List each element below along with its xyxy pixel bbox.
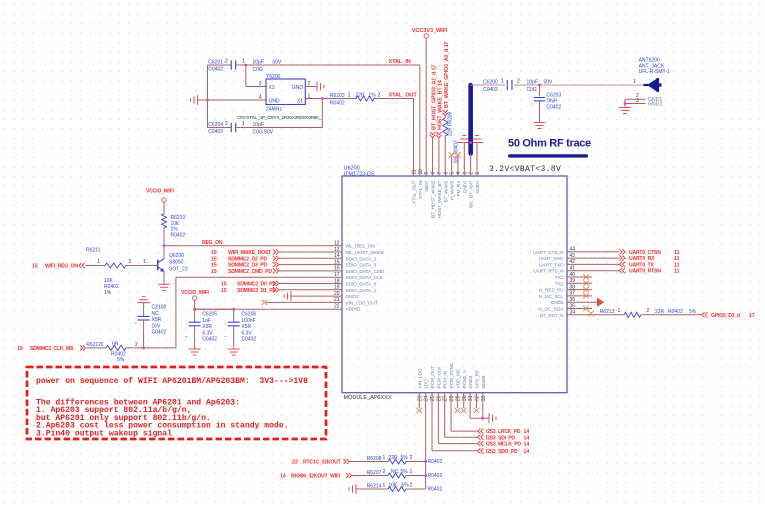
svg-text:SDMMC2_D0_PD: SDMMC2_D0_PD bbox=[237, 282, 276, 288]
svg-text:power on sequence of WIFI AP62: power on sequence of WIFI AP6201BM/AP620… bbox=[36, 377, 308, 386]
svg-text:1: 1 bbox=[383, 455, 386, 461]
svg-text:3.Pin40 output wakeup signal: 3.Pin40 output wakeup signal bbox=[36, 429, 172, 438]
svg-text:VCC3V3_WIFI: VCC3V3_WIFI bbox=[412, 28, 448, 34]
ground at pin 20 GND3 bbox=[284, 291, 342, 301]
resistor R6210 10K bbox=[162, 214, 186, 239]
pin 11 XTAL_OUT of U6200 bbox=[412, 169, 418, 204]
svg-text:XTAL_OUT: XTAL_OUT bbox=[412, 180, 418, 204]
ground left of R6214 bbox=[349, 484, 356, 494]
svg-text:UART0_CTSN: UART0_CTSN bbox=[629, 250, 661, 256]
transistor Q6200 S8050 bbox=[158, 246, 188, 285]
wire XTAL_OUT to pin 11 bbox=[413, 99, 415, 177]
net label XTAL_OUT bbox=[389, 93, 418, 99]
svg-text:SDMMC2_D2_PD: SDMMC2_D2_PD bbox=[228, 256, 267, 262]
svg-text:RK806_32KOUT_WIFI: RK806_32KOUT_WIFI bbox=[291, 474, 341, 480]
svg-text:SDIO_DATA_CMD: SDIO_DATA_CMD bbox=[346, 269, 385, 275]
no-connect X on right pin bbox=[567, 281, 592, 287]
svg-text:R0402: R0402 bbox=[428, 473, 443, 479]
ground right of crystal GND pin 2 bbox=[305, 82, 324, 92]
svg-text:HOST_WAKE_BT: HOST_WAKE_BT bbox=[437, 180, 443, 218]
svg-text:S8050: S8050 bbox=[169, 260, 184, 266]
svg-text:UART_TXD: UART_TXD bbox=[539, 262, 564, 268]
svg-text:C6204: C6204 bbox=[208, 122, 223, 128]
svg-text:7: 7 bbox=[437, 172, 443, 175]
svg-text:FM_RX: FM_RX bbox=[456, 180, 462, 197]
no-connect X at pin 35 bbox=[567, 306, 592, 312]
svg-text:WIFI_REG_ON: WIFI_REG_ON bbox=[45, 264, 78, 270]
svg-text:15: 15 bbox=[211, 250, 217, 256]
pin 16 SDIO_DATA_CMD of U6200 bbox=[334, 266, 385, 275]
svg-text:WL_HOST_WAKE: WL_HOST_WAKE bbox=[346, 250, 385, 256]
ground flipped at pin 3 GND2 bbox=[458, 136, 483, 177]
svg-text:GND3: GND3 bbox=[346, 294, 359, 300]
svg-text:1: 1 bbox=[410, 469, 413, 475]
text VBAT range note bbox=[489, 165, 561, 174]
svg-text:2: 2 bbox=[410, 455, 413, 461]
svg-text:1: 1 bbox=[348, 92, 351, 98]
svg-text:1: 1 bbox=[242, 121, 245, 127]
svg-text:2: 2 bbox=[410, 483, 413, 489]
svg-text:14: 14 bbox=[524, 435, 530, 441]
node REG_ON label bbox=[202, 240, 223, 246]
svg-text:3.2V<VBAT<3.8V: 3.2V<VBAT<3.8V bbox=[489, 165, 561, 174]
svg-text:8: 8 bbox=[431, 172, 437, 175]
svg-text:UFL-R-SMT-1: UFL-R-SMT-1 bbox=[639, 69, 670, 75]
svg-text:3: 3 bbox=[462, 172, 468, 175]
pin 5 H_WAKE of U6200 bbox=[450, 172, 456, 200]
svg-text:14: 14 bbox=[524, 449, 530, 455]
svg-text:NC: NC bbox=[391, 469, 399, 475]
wire net I2S3_SDI_PD from U6200 bottom bbox=[445, 393, 530, 442]
pin 3 GND2 of U6200 bbox=[462, 172, 468, 194]
resistor R6213 22R to GPIO0_D3_d bbox=[567, 308, 755, 319]
svg-text:XTAL_IN: XTAL_IN bbox=[418, 180, 424, 199]
svg-text:GPS_RF: GPS_RF bbox=[474, 370, 480, 389]
svg-text:I2S3_MCLK_PD: I2S3_MCLK_PD bbox=[486, 442, 521, 448]
svg-text:10K: 10K bbox=[389, 483, 399, 489]
capacitor C6200 10pF RF coupling bbox=[483, 78, 643, 93]
svg-text:32: 32 bbox=[474, 395, 480, 401]
off-page arrow at pin 36 bbox=[567, 298, 604, 307]
pin 32 GPS_RF of U6200 bbox=[474, 370, 480, 401]
pin 42 UART_TXD of U6200 bbox=[539, 259, 575, 268]
ground below C6203 bbox=[534, 123, 546, 129]
pin 12 WL_REG_ON of U6200 bbox=[334, 241, 375, 250]
wire net UART0_RX from U6200 bbox=[567, 256, 680, 263]
svg-text:11: 11 bbox=[674, 250, 680, 256]
wire net I2S3_SDO_PD from U6200 bottom bbox=[432, 393, 529, 455]
pin 4 FM_RX of U6200 bbox=[456, 172, 462, 197]
svg-text:5: 5 bbox=[450, 172, 456, 175]
svg-text:R0402: R0402 bbox=[330, 100, 345, 106]
ground below antenna bbox=[619, 108, 631, 114]
svg-text:XTAL_IN: XTAL_IN bbox=[389, 59, 411, 65]
svg-text:LPO: LPO bbox=[424, 379, 430, 389]
wire SDIO_DATA_CLK net from R6212 up to pin 17 bbox=[176, 277, 342, 348]
svg-text:1: 1 bbox=[143, 259, 146, 265]
svg-text:17: 17 bbox=[749, 313, 755, 319]
ground below C6205 bbox=[189, 349, 201, 355]
svg-text:15: 15 bbox=[221, 288, 227, 294]
no-connect X on right pin bbox=[567, 274, 592, 280]
pin 27 PCM_IN of U6200 bbox=[443, 370, 449, 401]
svg-text:PCM2_V: PCM2_V bbox=[462, 369, 468, 388]
pin 19 SDIO_DATA_1 of U6200 bbox=[334, 285, 377, 294]
pin 41 UART_RTS_N of U6200 bbox=[533, 266, 575, 275]
svg-text:BT_WAKE: BT_WAKE bbox=[443, 181, 449, 203]
net label XTAL_IN bbox=[389, 59, 411, 65]
svg-text:VCCIO_WIFI: VCCIO_WIFI bbox=[181, 290, 209, 296]
svg-text:UART_CTS_N: UART_CTS_N bbox=[533, 250, 564, 256]
svg-text:SDIO_DATA_CLK: SDIO_DATA_CLK bbox=[346, 275, 384, 281]
svg-text:1%: 1% bbox=[369, 92, 377, 98]
resistor R6208 22R bbox=[350, 455, 443, 465]
svg-text:14: 14 bbox=[280, 474, 286, 480]
power symbol VCC3V3_WIFI bbox=[412, 28, 448, 176]
svg-text:R0402: R0402 bbox=[428, 487, 443, 493]
no-connect X at pin 5 bbox=[449, 152, 455, 176]
pin 10 XTAL_IN of U6200 bbox=[418, 169, 424, 199]
svg-text:N_I2C_SDA: N_I2C_SDA bbox=[538, 307, 564, 313]
pin 22 VDDIO of U6200 bbox=[334, 304, 361, 313]
antenna jack ANT6200 symbol bbox=[633, 78, 662, 92]
svg-text:R0402: R0402 bbox=[428, 459, 443, 465]
svg-text:GND: GND bbox=[292, 85, 304, 91]
net label BT_HOST_GPIO3_A1_d on pin 8 bbox=[430, 65, 437, 176]
pin 29 VDD_MC of U6200 bbox=[455, 368, 461, 401]
svg-text:1: 1 bbox=[475, 172, 481, 175]
svg-text:BT_HOST_WAKE: BT_HOST_WAKE bbox=[431, 181, 437, 219]
pin 18 SDIO_DATA_0 of U6200 bbox=[334, 278, 377, 287]
svg-text:R6203: R6203 bbox=[330, 93, 345, 99]
svg-text:MODULE_AP6XXX: MODULE_AP6XXX bbox=[344, 395, 392, 401]
svg-text:BT_RST_N: BT_RST_N bbox=[540, 313, 564, 319]
pin 31 GND4 of U6200 bbox=[468, 375, 474, 401]
no-connect X on bottom pin bbox=[455, 393, 461, 414]
wire net UART0_RTSN from U6200 bbox=[567, 268, 680, 275]
svg-text:I2S3_LRCK_PD: I2S3_LRCK_PD bbox=[486, 429, 521, 435]
svg-text:22: 22 bbox=[334, 304, 340, 310]
svg-text:22: 22 bbox=[292, 460, 298, 466]
antenna ANT6200 labels bbox=[639, 58, 670, 76]
svg-text:15: 15 bbox=[221, 282, 227, 288]
svg-text:11: 11 bbox=[674, 262, 680, 268]
svg-text:16V: 16V bbox=[152, 323, 162, 329]
wire XTAL_IN from C6201 to pin 10 bbox=[244, 64, 419, 176]
crystal Y6200 24MHz bbox=[237, 74, 322, 121]
IC U6200 MODULE_AP6XXX body bbox=[342, 166, 567, 402]
svg-text:BT_HOST_GPIO3_A1_d 17: BT_HOST_GPIO3_A1_d 17 bbox=[431, 65, 437, 130]
power symbol VCCIO_WIFI above R6210 bbox=[146, 188, 174, 213]
pin 15 SDIO_DATA_3 of U6200 bbox=[334, 259, 377, 268]
wire C6201 to crystal X2 bbox=[246, 65, 266, 87]
svg-text:R6208: R6208 bbox=[367, 456, 382, 462]
svg-text:23: 23 bbox=[417, 395, 423, 401]
wire REG_ON net to pin 12 bbox=[163, 244, 342, 247]
svg-text:14: 14 bbox=[524, 429, 530, 435]
pin 6 BT_WAKE of U6200 bbox=[443, 172, 449, 203]
svg-text:9: 9 bbox=[424, 172, 430, 175]
svg-text:Y6200: Y6200 bbox=[266, 74, 281, 80]
pin 20 GND3 of U6200 bbox=[334, 291, 359, 300]
wire net I2S3_MCLK_PD from U6200 bottom bbox=[438, 393, 529, 448]
svg-text:1: 1 bbox=[242, 59, 245, 65]
svg-text:CRYSTAL_4P_CRY4_2R20X2R50X0R80: CRYSTAL_4P_CRY4_2R20X2R50X0R80_ bbox=[237, 115, 322, 121]
resistor R6212 0R bbox=[86, 342, 176, 364]
no-connect X on right pin bbox=[567, 293, 592, 299]
wire C6204 to X1 node bbox=[246, 99, 322, 128]
svg-text:14: 14 bbox=[524, 442, 530, 448]
svg-text:X5R: X5R bbox=[202, 324, 212, 330]
svg-text:6.3V: 6.3V bbox=[202, 330, 213, 336]
pin 2 WL_BT_ANT of U6200 bbox=[469, 172, 475, 208]
wire net SDMMC2_D1_PD to U6200 bbox=[221, 287, 342, 294]
svg-text:2: 2 bbox=[129, 259, 132, 265]
svg-text:XTAL_OUT: XTAL_OUT bbox=[389, 93, 418, 99]
svg-text:R0402: R0402 bbox=[668, 309, 683, 315]
wire R6210 to collector node bbox=[163, 228, 165, 246]
pin 35 N_I2C_SDA of U6200 bbox=[538, 303, 575, 312]
svg-text:SDIO_DATA_1: SDIO_DATA_1 bbox=[346, 288, 377, 294]
svg-text:WL_BT_ANT: WL_BT_ANT bbox=[469, 180, 475, 208]
ground left of crystal bbox=[191, 95, 267, 105]
wire net SDMMC2_D3_PD to U6200 bbox=[211, 262, 342, 269]
svg-text:SDIO_DATA_0: SDIO_DATA_0 bbox=[346, 282, 377, 288]
svg-text:15: 15 bbox=[17, 346, 23, 352]
power symbol VCCIO_WIFI for VDDIO bbox=[181, 290, 235, 311]
pin 1 GND1 of U6200 bbox=[475, 172, 481, 194]
svg-text:50 Ohm RF trace: 50 Ohm RF trace bbox=[508, 138, 591, 150]
svg-text:29: 29 bbox=[455, 395, 461, 401]
wire net I2S3_LRCK_PD from U6200 bottom bbox=[451, 393, 529, 435]
svg-text:6.3V: 6.3V bbox=[241, 330, 252, 336]
wire net SDMMC2_CMD_PD to U6200 bbox=[211, 268, 342, 275]
pin 17 SDIO_DATA_CLK of U6200 bbox=[334, 272, 384, 281]
svg-text:C0G: C0G bbox=[253, 67, 263, 73]
svg-text:4: 4 bbox=[259, 94, 262, 100]
antenna ground pins GND1 GND2 bbox=[624, 93, 663, 108]
svg-text:H_WAKE: H_WAKE bbox=[450, 181, 456, 200]
no-connect X on bottom pin bbox=[461, 393, 467, 414]
svg-text:R6213: R6213 bbox=[600, 309, 615, 315]
svg-text:SDMMC2_D1_PD: SDMMC2_D1_PD bbox=[237, 288, 276, 294]
svg-text:10: 10 bbox=[418, 169, 424, 175]
svg-text:R6214: R6214 bbox=[367, 484, 382, 490]
svg-text:15: 15 bbox=[211, 263, 217, 269]
net label 15 WIFI_REG_ON bbox=[32, 263, 85, 270]
svg-text:11: 11 bbox=[412, 169, 418, 174]
svg-text:C0G: C0G bbox=[527, 87, 537, 93]
svg-text:2: 2 bbox=[225, 121, 228, 127]
svg-text:C0402: C0402 bbox=[483, 87, 498, 93]
wire trunk for load caps bbox=[207, 65, 209, 128]
pin 37 N_I2C_SCL of U6200 bbox=[539, 291, 575, 300]
wire GND4 and GND5 to ground bbox=[470, 393, 489, 420]
svg-text:UART0_RX: UART0_RX bbox=[629, 256, 655, 262]
capacitor C6206 100nF bbox=[224, 309, 256, 349]
svg-text:SOT_23: SOT_23 bbox=[169, 267, 188, 273]
wire RF net to antenna bbox=[471, 84, 505, 86]
svg-text:UART0_RTSN: UART0_RTSN bbox=[629, 269, 661, 275]
svg-text:I2S3_SDI_PD: I2S3_SDI_PD bbox=[486, 435, 516, 441]
svg-text:R6211: R6211 bbox=[86, 247, 101, 253]
capacitor C6203 DNP shunt bbox=[531, 85, 561, 123]
svg-text:11: 11 bbox=[674, 269, 680, 275]
svg-text:GND6: GND6 bbox=[551, 300, 564, 306]
svg-text:~: ~ bbox=[134, 321, 137, 326]
svg-text:3: 3 bbox=[259, 81, 262, 87]
svg-text:0R: 0R bbox=[112, 342, 119, 348]
pin 25 PCM_OUT of U6200 bbox=[430, 366, 436, 401]
svg-text:2: 2 bbox=[647, 308, 650, 314]
svg-text:C0402: C0402 bbox=[547, 105, 562, 111]
svg-text:SDIO_DATA_3: SDIO_DATA_3 bbox=[346, 263, 377, 269]
capacitor C2100 NC bbox=[134, 297, 166, 348]
svg-text:27: 27 bbox=[443, 395, 449, 401]
svg-text:30: 30 bbox=[462, 395, 468, 401]
svg-text:SDMMC2_CMD_PD: SDMMC2_CMD_PD bbox=[228, 269, 272, 275]
resistor R6209 22K on pin 6 bbox=[443, 112, 460, 176]
svg-text:VDDIO: VDDIO bbox=[346, 307, 361, 313]
svg-text:~: ~ bbox=[185, 334, 188, 339]
svg-text:C0402: C0402 bbox=[241, 337, 256, 343]
svg-text:31: 31 bbox=[468, 395, 474, 401]
net label HOST_WAKE_BT on pin 7 bbox=[436, 80, 443, 176]
pin 30 PCM2_V of U6200 bbox=[462, 369, 468, 401]
svg-text:HOST_WAKE_BT 14: HOST_WAKE_BT 14 bbox=[438, 80, 444, 130]
resistor R6211 10K on base bbox=[86, 247, 158, 296]
svg-text:C0402: C0402 bbox=[202, 337, 217, 343]
pin 23 VIN_LDO of U6200 bbox=[417, 368, 423, 401]
svg-text:R6212: R6212 bbox=[86, 342, 101, 348]
net label BT_WAKE_GPIO3_A0_d on pin 6 bbox=[443, 41, 450, 118]
svg-text:26: 26 bbox=[436, 395, 442, 401]
net label 15 SDMMC2_CLK_MS bbox=[17, 345, 86, 352]
svg-text:1%: 1% bbox=[104, 290, 112, 296]
capacitor C6204 10pF bbox=[208, 121, 274, 136]
svg-text:C6206: C6206 bbox=[241, 312, 256, 318]
svg-text:28: 28 bbox=[449, 395, 455, 401]
no-connect X at pin 23 bbox=[417, 393, 423, 414]
svg-text:I2S3_SDO_PD: I2S3_SDO_PD bbox=[486, 449, 518, 455]
svg-text:11: 11 bbox=[674, 256, 680, 262]
svg-text:N_RES_PU: N_RES_PU bbox=[539, 288, 564, 294]
wire net WIFI_WAKE_HOST to U6200 bbox=[211, 249, 342, 256]
svg-text:VBAT: VBAT bbox=[424, 180, 430, 192]
pin 34 BT_RST_N of U6200 bbox=[540, 310, 576, 319]
svg-text:1: 1 bbox=[97, 259, 100, 265]
pin 7 HOST_WAKE_BT of U6200 bbox=[437, 172, 443, 219]
text 50 Ohm RF trace bbox=[508, 138, 591, 158]
svg-text:22R: 22R bbox=[655, 309, 665, 315]
net label 22 RTC1C_32KOUT bbox=[292, 459, 349, 466]
pin 24 LPO of U6200 bbox=[424, 379, 430, 401]
svg-text:22K R6209: 22K R6209 bbox=[447, 112, 453, 136]
svg-text:24: 24 bbox=[424, 395, 430, 401]
pin 40 TX1 of U6200 bbox=[555, 272, 575, 281]
pin 21 VIN_LDO_OUT of U6200 bbox=[334, 297, 378, 306]
svg-text:UART_RXD: UART_RXD bbox=[539, 256, 565, 262]
svg-text:ITM1723-DS: ITM1723-DS bbox=[344, 171, 376, 177]
svg-text:2: 2 bbox=[383, 469, 386, 475]
resistor R6214 10K bbox=[356, 483, 442, 493]
svg-text:5%: 5% bbox=[401, 469, 409, 475]
no-connect X on right pin bbox=[567, 287, 592, 293]
svg-text:5%: 5% bbox=[402, 483, 410, 489]
svg-text:15: 15 bbox=[32, 264, 38, 270]
svg-text:1: 1 bbox=[618, 308, 621, 314]
thick 50-ohm RF trace to pin 2 WL_BT_ANT bbox=[469, 85, 472, 176]
svg-text:GND1: GND1 bbox=[475, 180, 481, 193]
svg-text:1uF: 1uF bbox=[202, 318, 211, 324]
svg-text:VIN_LDO_OUT: VIN_LDO_OUT bbox=[346, 300, 378, 306]
wire net UART0_CTSN from U6200 bbox=[567, 249, 680, 256]
svg-text:C6205: C6205 bbox=[202, 312, 217, 318]
svg-text:4: 4 bbox=[456, 172, 462, 175]
ground right of bottom pins bbox=[489, 413, 496, 423]
svg-text:RTC1C_32KOUT: RTC1C_32KOUT bbox=[303, 460, 342, 466]
svg-text:X1: X1 bbox=[297, 99, 303, 105]
wire net SDMMC2_D2_PD to U6200 bbox=[211, 256, 342, 263]
pin 38 N_RES_PU of U6200 bbox=[539, 284, 575, 293]
svg-text:C0G 50V: C0G 50V bbox=[253, 130, 274, 136]
svg-text:50V: 50V bbox=[544, 80, 554, 86]
svg-text:10pF: 10pF bbox=[527, 80, 538, 86]
pin 28 PCM_SYNC of U6200 bbox=[449, 362, 455, 401]
svg-text:5%: 5% bbox=[117, 357, 125, 363]
svg-text:PCM_IN: PCM_IN bbox=[443, 370, 449, 388]
svg-text:C0402: C0402 bbox=[208, 67, 223, 73]
pin 13 WL_HOST_WAKE of U6200 bbox=[334, 247, 384, 256]
svg-text:24MHz: 24MHz bbox=[266, 107, 282, 113]
net label 14 RK806_32KOUT_WIFI bbox=[280, 473, 352, 480]
svg-text:PCM_OUT: PCM_OUT bbox=[430, 366, 436, 389]
svg-text:22R: 22R bbox=[389, 455, 399, 461]
wire net SDMMC2_D0_PD to U6200 bbox=[221, 281, 342, 288]
svg-text:2: 2 bbox=[517, 78, 520, 84]
node RF junction bbox=[538, 84, 541, 87]
svg-text:C6201: C6201 bbox=[208, 60, 223, 66]
svg-text:2: 2 bbox=[135, 342, 138, 348]
svg-text:GND2: GND2 bbox=[462, 180, 468, 193]
svg-text:GND: GND bbox=[269, 99, 281, 105]
capacitor C6201 10pF bbox=[208, 59, 283, 74]
svg-text:SDMMC2_D3_PD: SDMMC2_D3_PD bbox=[228, 263, 267, 269]
resistor R6203 22R bbox=[330, 92, 414, 106]
svg-text:R6207: R6207 bbox=[367, 470, 382, 476]
pin 8 BT_HOST_WAKE of U6200 bbox=[431, 172, 437, 219]
pin 36 GND6 of U6200 bbox=[551, 297, 576, 306]
svg-text:REG_ON: REG_ON bbox=[202, 240, 223, 246]
ground below C6206 bbox=[228, 349, 240, 355]
wire net UART0_TX from U6200 bbox=[567, 262, 680, 269]
svg-text:1: 1 bbox=[383, 483, 386, 489]
pin 14 SDIO_DATA_2 of U6200 bbox=[334, 253, 377, 262]
pin 26 PCM_CLK of U6200 bbox=[436, 366, 442, 401]
svg-text:2: 2 bbox=[378, 92, 381, 98]
svg-text:BT_WAKE_GPIO3_A0_d 17: BT_WAKE_GPIO3_A0_d 17 bbox=[444, 41, 450, 108]
svg-text:~: ~ bbox=[224, 334, 227, 339]
svg-text:GND4: GND4 bbox=[468, 375, 474, 388]
no-connect X at pin 21 VIN_LDO_OUT bbox=[262, 300, 342, 306]
svg-text:1: 1 bbox=[633, 79, 636, 85]
svg-text:5%: 5% bbox=[689, 309, 697, 315]
svg-text:X5R: X5R bbox=[152, 317, 162, 323]
svg-text:UART_RTS_N: UART_RTS_N bbox=[533, 269, 564, 275]
svg-text:C0402: C0402 bbox=[208, 129, 223, 135]
svg-text:WIFI_WAKE_HOST: WIFI_WAKE_HOST bbox=[228, 250, 272, 256]
svg-text:C0402: C0402 bbox=[152, 330, 167, 336]
